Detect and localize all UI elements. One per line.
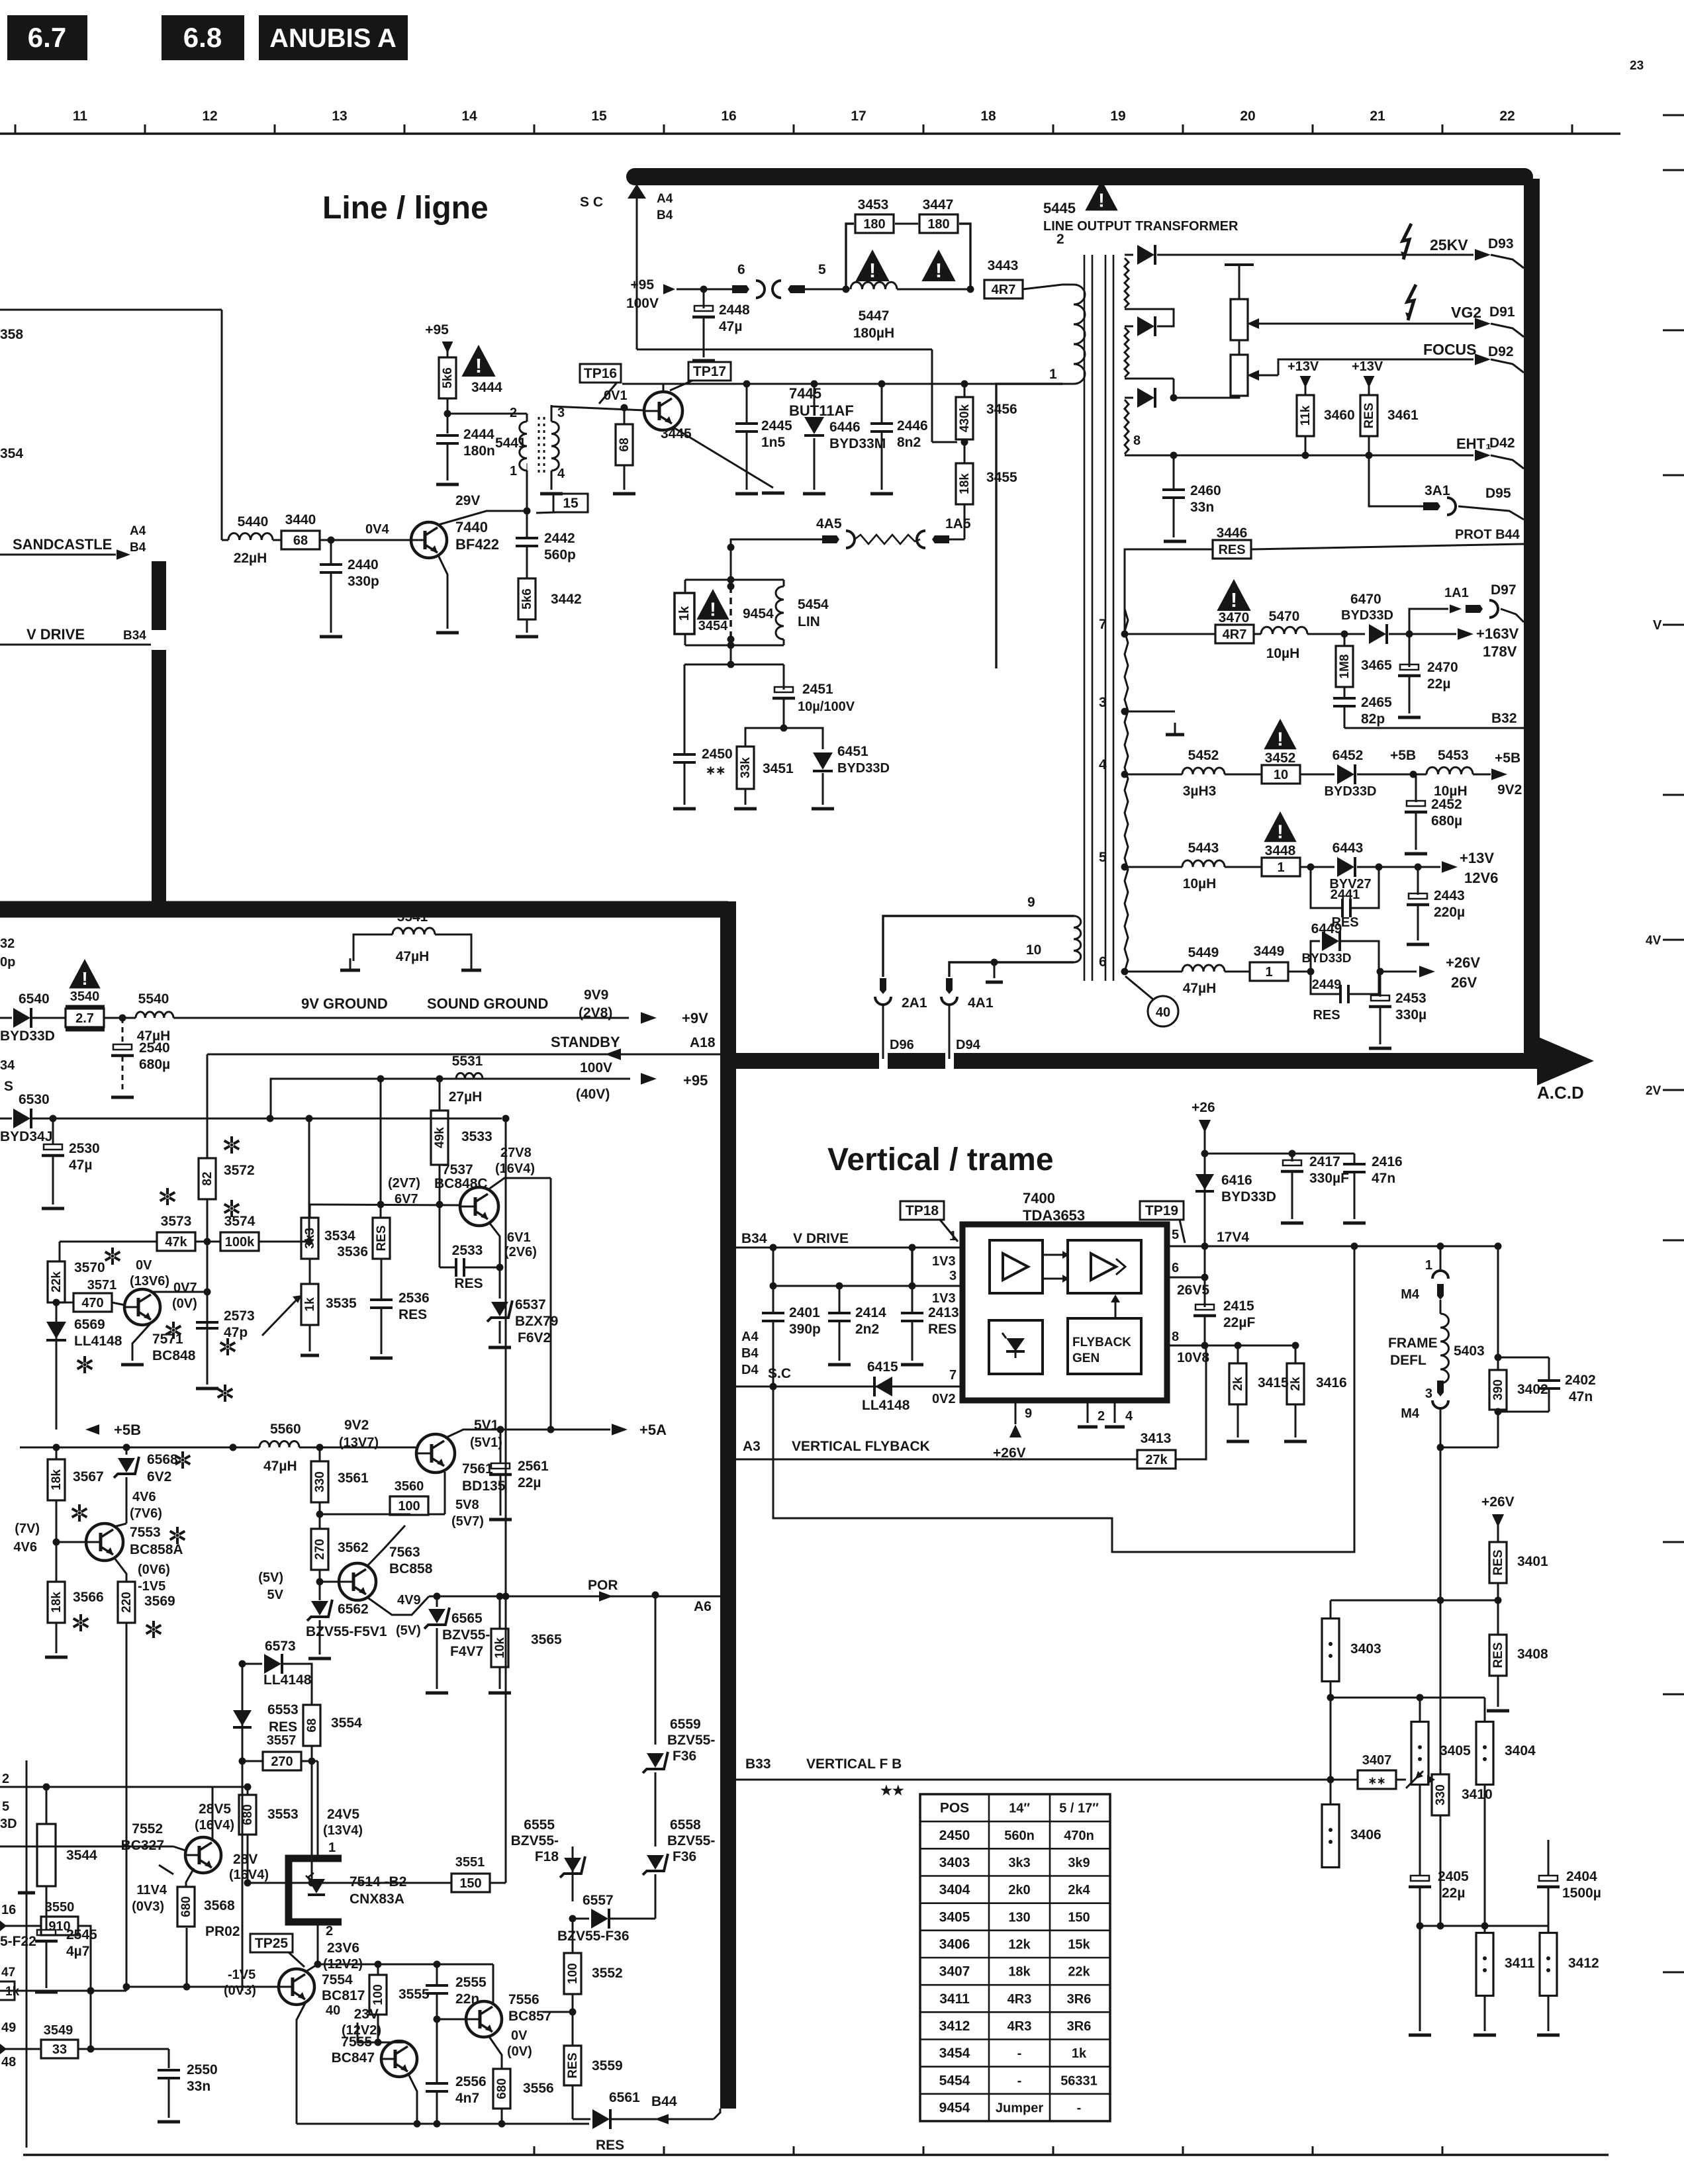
node 6530 row x758 bbox=[502, 1115, 510, 1122]
svg-text:1A5: 1A5 bbox=[945, 516, 971, 531]
svg-text:10µH: 10µH bbox=[1183, 876, 1217, 891]
svg-text:470: 470 bbox=[81, 1296, 103, 1310]
wire V DRIVE bbox=[736, 1231, 962, 1251]
node 15 flag bbox=[524, 494, 588, 515]
node divider bbox=[961, 439, 968, 464]
svg-text:5440: 5440 bbox=[238, 514, 269, 529]
diode 6416 BYD33D bbox=[1195, 1173, 1276, 1205]
ic flyback gen box bbox=[1068, 1318, 1141, 1374]
svg-text:M4: M4 bbox=[1401, 1406, 1420, 1421]
resistor 3451 33k bbox=[734, 747, 794, 809]
node 24V5 bbox=[323, 1807, 363, 1855]
svg-text:14″: 14″ bbox=[1009, 1801, 1030, 1816]
svg-text:D92: D92 bbox=[1488, 344, 1514, 359]
svg-text:3534: 3534 bbox=[324, 1228, 355, 1244]
inductor 5454 LIN bbox=[776, 580, 829, 645]
svg-text:(13V7): (13V7) bbox=[339, 1435, 379, 1450]
svg-text:BC858A: BC858A bbox=[130, 1542, 183, 1557]
connector 2A1 bbox=[875, 978, 927, 1059]
resistor 3566 18k bbox=[45, 1542, 104, 1657]
svg-text:4A1: 4A1 bbox=[968, 995, 994, 1011]
node 6573 bbox=[239, 1661, 246, 1668]
svg-text:GEN: GEN bbox=[1072, 1351, 1099, 1365]
wire row 2418 bbox=[1331, 1600, 1498, 1602]
resistor 3444 5k6 bbox=[439, 357, 502, 414]
svg-text:1V3: 1V3 bbox=[932, 1254, 956, 1269]
svg-text:D91: D91 bbox=[1489, 304, 1515, 320]
svg-text:!: ! bbox=[1277, 729, 1284, 750]
svg-text:1: 1 bbox=[1265, 965, 1272, 979]
svg-text:B4: B4 bbox=[657, 208, 673, 222]
svg-text:TDA3653: TDA3653 bbox=[1023, 1207, 1085, 1224]
svg-text:3404: 3404 bbox=[939, 1882, 970, 1897]
supply +26V lower bbox=[1481, 1494, 1515, 1542]
net 5V 5V bbox=[258, 1570, 283, 1602]
capacitor 2530 47u bbox=[42, 1118, 100, 1208]
svg-text:2556: 2556 bbox=[455, 2074, 487, 2089]
net 9V9 +9V bbox=[579, 987, 708, 1026]
svg-text:6452: 6452 bbox=[1333, 748, 1364, 763]
svg-text:7561: 7561 bbox=[462, 1461, 493, 1477]
wire 3410 gnd bbox=[1419, 1926, 1421, 2031]
emitter 7555 bbox=[408, 2074, 417, 2124]
wire 6558 down bbox=[655, 1874, 657, 1919]
svg-text:68: 68 bbox=[305, 1718, 319, 1732]
pin7 labels bbox=[932, 1368, 957, 1406]
wire defl right branch bbox=[1495, 1243, 1502, 1361]
resistor 3405 bbox=[1411, 1698, 1471, 1876]
svg-text:D4: D4 bbox=[741, 1363, 759, 1377]
wire 3447 branch down bbox=[959, 224, 970, 289]
diode 6569 LL4148 bbox=[46, 1317, 122, 1430]
partial 49 bbox=[1, 2021, 16, 2035]
inductor 5470 10uH bbox=[1254, 609, 1344, 661]
net 0V6 -1V5 bbox=[138, 1563, 170, 1594]
capacitor 2533 RES bbox=[440, 1243, 500, 1291]
wire defl top bbox=[1440, 1246, 1442, 1271]
svg-text:8: 8 bbox=[1172, 1330, 1179, 1344]
ic internal wires bbox=[1015, 1358, 1072, 1363]
wire sc to divider bbox=[932, 441, 957, 443]
wire 7555 base bbox=[318, 2058, 381, 2060]
svg-text:POS: POS bbox=[940, 1801, 969, 1816]
svg-text:4A5: 4A5 bbox=[816, 516, 842, 531]
svg-text:47n: 47n bbox=[1372, 1171, 1395, 1186]
svg-text:56331: 56331 bbox=[1060, 2073, 1098, 2088]
svg-text:0V2: 0V2 bbox=[932, 1392, 956, 1406]
node S.C entry arrow bbox=[580, 184, 646, 349]
svg-text:2416: 2416 bbox=[1372, 1154, 1403, 1169]
svg-text:3412: 3412 bbox=[1568, 1956, 1599, 1971]
wire 3551 col bbox=[311, 1761, 313, 1883]
svg-text:1k: 1k bbox=[1072, 2046, 1087, 2061]
svg-text:LINE OUTPUT TRANSFORMER: LINE OUTPUT TRANSFORMER bbox=[1043, 219, 1239, 234]
svg-text:0V: 0V bbox=[511, 2028, 528, 2043]
node 2470 bbox=[1389, 631, 1456, 638]
svg-text:3461: 3461 bbox=[1387, 408, 1419, 423]
svg-text:180n: 180n bbox=[463, 443, 495, 459]
svg-text:(0V): (0V) bbox=[507, 2044, 532, 2059]
pin label 5 bbox=[1099, 850, 1129, 871]
svg-text:+13V: +13V bbox=[1287, 359, 1319, 374]
resistor 3448 1 bbox=[1225, 843, 1300, 876]
svg-text:(0V3): (0V3) bbox=[132, 1899, 164, 1914]
svg-text:-: - bbox=[1017, 2046, 1022, 2061]
diode 6530 BYD34J bbox=[0, 1092, 502, 1144]
wire row 2700 bbox=[0, 1784, 252, 1791]
svg-text:16: 16 bbox=[721, 109, 736, 124]
svg-text:6: 6 bbox=[737, 262, 745, 277]
node x191 row bbox=[123, 1983, 130, 1991]
svg-text:6562: 6562 bbox=[338, 1602, 369, 1617]
svg-text:3451: 3451 bbox=[763, 761, 794, 776]
svg-text:VG2: VG2 bbox=[1451, 304, 1481, 321]
resistor 3447 180 bbox=[919, 197, 958, 233]
svg-text:1: 1 bbox=[328, 1841, 336, 1855]
resistor 3453 180 bbox=[855, 197, 894, 233]
resistor 3534 3k3 bbox=[301, 1205, 355, 1259]
resistor 3555 100 bbox=[369, 1964, 430, 2042]
inductor 5452 bbox=[1125, 748, 1225, 799]
resistor 3445 68 bbox=[613, 408, 692, 494]
capacitor 2453 330u bbox=[1369, 972, 1427, 1048]
resistor 3574 100k bbox=[195, 1214, 313, 1251]
inductor 5540 47uH bbox=[136, 991, 629, 1044]
capacitor 2460 33n bbox=[1162, 455, 1221, 537]
svg-text:2: 2 bbox=[1098, 1409, 1105, 1424]
resistor 3556 680 bbox=[493, 2069, 554, 2124]
diode 6561 RES bbox=[573, 2090, 714, 2153]
connector 6 bbox=[732, 262, 765, 298]
flag TP25 bbox=[250, 1934, 304, 1967]
wire standby drop bbox=[207, 1054, 209, 1158]
wire 3533 row bbox=[310, 1075, 461, 1218]
partial label 358 bbox=[0, 327, 23, 1073]
transformer 5445 primary winding 2-1 bbox=[1062, 285, 1085, 384]
svg-text:6: 6 bbox=[1172, 1261, 1179, 1275]
svg-text:6415: 6415 bbox=[867, 1359, 898, 1375]
resistor 3540 2.7 bbox=[66, 989, 105, 1030]
svg-text:2536: 2536 bbox=[398, 1291, 430, 1306]
svg-text:18k: 18k bbox=[50, 1592, 64, 1613]
svg-text:(7V): (7V) bbox=[15, 1522, 40, 1536]
svg-text:28V: 28V bbox=[233, 1852, 257, 1867]
transistor 7571 BC848 bbox=[124, 1289, 160, 1325]
svg-text:BC857: BC857 bbox=[508, 2009, 551, 2024]
arrow +13V out bbox=[1418, 850, 1498, 886]
svg-text:47µH: 47µH bbox=[1183, 981, 1217, 996]
svg-text:7445: 7445 bbox=[789, 385, 821, 402]
svg-text:180µH: 180µH bbox=[853, 326, 894, 341]
label 7555 bbox=[332, 2034, 375, 2066]
label 7445 bbox=[789, 385, 854, 419]
pin label 7 bbox=[1099, 617, 1129, 638]
capacitor 2449 bridge bbox=[1311, 972, 1379, 1023]
net 28V 16V4 bbox=[229, 1852, 269, 1882]
svg-text:2401: 2401 bbox=[789, 1305, 820, 1320]
resistor 3571 470 bbox=[53, 1278, 126, 1312]
wire vg2 row bbox=[1271, 323, 1473, 325]
svg-text:S: S bbox=[4, 1079, 13, 1094]
net 23V 12V2 bbox=[342, 2007, 381, 2038]
svg-text:2414: 2414 bbox=[855, 1305, 886, 1320]
asterisk a13 bbox=[146, 1621, 162, 1638]
emitter 7563 bbox=[367, 1593, 429, 1638]
node 5560 bbox=[230, 1444, 237, 1451]
svg-text:BZV55-: BZV55- bbox=[667, 1833, 715, 1848]
svg-text:3R6: 3R6 bbox=[1067, 1992, 1092, 2007]
svg-text:19: 19 bbox=[1110, 109, 1125, 124]
collector 7553 bbox=[114, 1524, 126, 1527]
pot vg2 wiper bbox=[1247, 318, 1271, 329]
svg-text:A4: A4 bbox=[741, 1330, 759, 1344]
svg-text:(7V6): (7V6) bbox=[130, 1506, 162, 1521]
svg-text:TP17: TP17 bbox=[693, 364, 726, 379]
svg-text:B4: B4 bbox=[130, 541, 146, 555]
svg-text:49k: 49k bbox=[433, 1127, 447, 1148]
svg-text:10µ/100V: 10µ/100V bbox=[798, 700, 855, 714]
svg-text:28V5: 28V5 bbox=[199, 1801, 231, 1817]
svg-text:BC817: BC817 bbox=[322, 1988, 365, 2003]
diode 6446 BYD33M bbox=[803, 381, 886, 494]
capacitor 2416 47n bbox=[1343, 1154, 1403, 1223]
asterisk a7 bbox=[220, 1338, 236, 1355]
node eht 2460 bbox=[1170, 452, 1178, 459]
svg-text:D95: D95 bbox=[1485, 486, 1511, 501]
svg-text:6553: 6553 bbox=[267, 1702, 299, 1717]
partial 16 bbox=[1, 1903, 16, 1917]
svg-text:6V7: 6V7 bbox=[395, 1192, 418, 1206]
svg-text:18k: 18k bbox=[50, 1469, 64, 1490]
zener 6568 6V2 bbox=[114, 1447, 178, 1524]
svg-text:BZV55-: BZV55- bbox=[667, 1733, 715, 1748]
wire 2404 top bbox=[1548, 1840, 1550, 1876]
svg-text:5540: 5540 bbox=[138, 991, 169, 1007]
svg-text:2443: 2443 bbox=[1434, 888, 1465, 903]
svg-text:23V6: 23V6 bbox=[327, 1940, 359, 1956]
node 18k top bbox=[56, 1447, 57, 1448]
wire 2442 to xfmr bbox=[526, 471, 528, 511]
svg-text:-1V5: -1V5 bbox=[228, 1968, 256, 1982]
net 0V1 bbox=[604, 388, 628, 403]
node 5540 bbox=[104, 1015, 136, 1022]
node junction 2448 bbox=[700, 286, 708, 293]
resistor 3550 910 bbox=[0, 1900, 78, 1935]
wire pin3 gnd bbox=[1125, 711, 1184, 735]
svg-text:(16V4): (16V4) bbox=[495, 1161, 535, 1176]
svg-text:23: 23 bbox=[1630, 59, 1644, 73]
asterisk a3 bbox=[160, 1188, 175, 1205]
svg-text:TP16: TP16 bbox=[584, 366, 617, 381]
asterisk a9 bbox=[72, 1504, 87, 1522]
svg-text:B44: B44 bbox=[651, 2094, 677, 2109]
wire x990 col bbox=[652, 1592, 659, 1745]
connector 5 bbox=[772, 262, 846, 298]
svg-text:7440: 7440 bbox=[455, 519, 488, 535]
svg-text:RES: RES bbox=[1218, 543, 1245, 557]
lightning 25KV bbox=[1401, 224, 1411, 259]
svg-text:FLYBACK: FLYBACK bbox=[1072, 1336, 1131, 1349]
svg-text:9: 9 bbox=[1027, 895, 1035, 910]
resistor 3460 11k bbox=[1287, 359, 1355, 459]
svg-text:2545: 2545 bbox=[66, 1927, 97, 1942]
svg-text:2450: 2450 bbox=[702, 747, 733, 762]
wire focus row bbox=[1278, 359, 1473, 375]
svg-text:RES: RES bbox=[454, 1276, 483, 1291]
svg-text:+5A: +5A bbox=[639, 1422, 667, 1438]
svg-text:33n: 33n bbox=[1190, 500, 1214, 515]
table note stars bbox=[880, 1784, 904, 1798]
label 7556 bbox=[508, 1992, 551, 2024]
svg-text:100: 100 bbox=[371, 1984, 385, 2005]
svg-text:(2V6): (2V6) bbox=[504, 1245, 537, 1259]
svg-text:9454: 9454 bbox=[939, 2100, 970, 2115]
wire vertical flyback bbox=[736, 1439, 1137, 1459]
svg-text:29V: 29V bbox=[455, 493, 480, 508]
svg-text:9V2: 9V2 bbox=[1497, 782, 1522, 797]
wire row 2910 bbox=[1417, 1923, 1549, 1930]
transistor 7554 BC817 bbox=[279, 1969, 314, 2005]
svg-text:RES: RES bbox=[1362, 402, 1376, 428]
svg-text:RES: RES bbox=[596, 2138, 624, 2153]
svg-text:1: 1 bbox=[1049, 367, 1057, 382]
label 7571 bbox=[152, 1332, 196, 1363]
svg-text:7400: 7400 bbox=[1023, 1190, 1055, 1206]
resistor 3410 330 bbox=[1432, 1774, 1493, 1926]
wire 3550 right bbox=[78, 1926, 91, 1991]
svg-text:!: ! bbox=[81, 968, 87, 989]
net PROT B44 bbox=[1455, 527, 1520, 542]
svg-text:5445: 5445 bbox=[1043, 200, 1076, 216]
svg-text:3552: 3552 bbox=[592, 1966, 623, 1981]
transformer 5445 core bbox=[1084, 255, 1113, 981]
wire pin6 out bbox=[1377, 968, 1417, 976]
wire standby bbox=[207, 1034, 720, 1060]
svg-text:6: 6 bbox=[1099, 954, 1107, 970]
node 6449 left bbox=[1288, 968, 1315, 976]
svg-text:9: 9 bbox=[1025, 1406, 1032, 1421]
svg-text:6530: 6530 bbox=[19, 1092, 50, 1107]
svg-text:100: 100 bbox=[566, 1963, 580, 1984]
svg-text:2540: 2540 bbox=[139, 1040, 170, 1056]
wire 3453-3447 bbox=[895, 223, 918, 225]
svg-text:3447: 3447 bbox=[923, 197, 954, 212]
svg-text:!: ! bbox=[1098, 190, 1105, 211]
svg-text:6558: 6558 bbox=[670, 1817, 701, 1833]
svg-text:3R6: 3R6 bbox=[1067, 2019, 1092, 2034]
svg-text:+26: +26 bbox=[1192, 1100, 1215, 1115]
svg-text:2V: 2V bbox=[1646, 1084, 1661, 1098]
svg-text:BC847: BC847 bbox=[332, 2050, 375, 2066]
svg-text:3442: 3442 bbox=[551, 592, 582, 607]
svg-text:V: V bbox=[1653, 618, 1662, 633]
wire 22k top bbox=[59, 1242, 61, 1261]
svg-text:7552: 7552 bbox=[132, 1821, 163, 1837]
label 7552 bbox=[121, 1821, 164, 1853]
wire fb loop bbox=[773, 1246, 1354, 1552]
svg-text:3401: 3401 bbox=[1517, 1554, 1548, 1569]
diode 6449 BYD33D bridge bbox=[1302, 921, 1379, 972]
svg-text:3470: 3470 bbox=[1219, 610, 1250, 625]
resistor 3416 2k bbox=[1284, 1342, 1347, 1442]
component value table bbox=[920, 1794, 1110, 2121]
svg-text:47: 47 bbox=[1, 1966, 15, 1979]
transistor 7440 BF422 bbox=[411, 522, 447, 558]
svg-text:BZV55-F5V1: BZV55-F5V1 bbox=[306, 1624, 387, 1639]
label 7553 bbox=[130, 1525, 183, 1557]
warning triangle 3452 bbox=[1264, 719, 1296, 750]
warning triangle 3470 bbox=[1217, 579, 1250, 612]
resistor 3573 47k bbox=[157, 1214, 195, 1251]
node split 3453 bbox=[843, 286, 850, 293]
svg-text:330p: 330p bbox=[348, 574, 379, 589]
svg-text:0V1: 0V1 bbox=[604, 388, 628, 403]
wire pin5 17V4 bbox=[1167, 1228, 1498, 1250]
capacitor 2556 4n7 bbox=[437, 2019, 487, 2106]
wire 3552 left bbox=[543, 2011, 573, 2013]
wire x191-x282 row bbox=[126, 1986, 187, 1987]
svg-text:11k: 11k bbox=[1299, 405, 1313, 426]
transformer 5445 secondary lower winding bbox=[1125, 609, 1128, 972]
wire row 2565 bbox=[1331, 1694, 1485, 1702]
label 7554 bbox=[322, 1972, 365, 2018]
svg-text:CNX83A: CNX83A bbox=[350, 1891, 404, 1907]
net label D96 bbox=[890, 1038, 914, 1052]
svg-text:9V2: 9V2 bbox=[344, 1418, 369, 1433]
net 0V7 bbox=[172, 1281, 197, 1311]
wire x865 col bbox=[572, 1846, 574, 1901]
capacitor 2415 22uF bbox=[1193, 1298, 1255, 1345]
capacitor 2441 bridge bbox=[1311, 864, 1383, 918]
net S entry bbox=[0, 1079, 13, 1118]
svg-text:5454: 5454 bbox=[939, 2073, 970, 2088]
svg-text:5403: 5403 bbox=[1454, 1343, 1485, 1359]
svg-text:0p: 0p bbox=[0, 955, 15, 970]
wire 7571 collector bbox=[152, 1289, 211, 1296]
left section top border bar bbox=[0, 901, 728, 918]
capacitor 2561 22u bbox=[489, 1426, 549, 1520]
svg-text:!: ! bbox=[1231, 588, 1237, 612]
emitter 7556 col bbox=[489, 2036, 502, 2068]
svg-text:20: 20 bbox=[1240, 109, 1255, 124]
svg-text:A18: A18 bbox=[690, 1035, 716, 1050]
svg-text:(5V7): (5V7) bbox=[451, 1514, 484, 1529]
wire prot bbox=[1125, 549, 1213, 634]
capacitor 2450 bbox=[673, 747, 733, 809]
diode 6553 RES bbox=[233, 1702, 299, 1735]
svg-text:F18: F18 bbox=[535, 1849, 559, 1864]
node tp25 bbox=[314, 1961, 322, 1968]
ic amp arrows bbox=[1043, 1251, 1069, 1283]
svg-text:34: 34 bbox=[0, 1058, 15, 1073]
connector 4A5 bbox=[816, 516, 855, 548]
svg-text:(2V7): (2V7) bbox=[388, 1176, 420, 1191]
wire POR bbox=[429, 1578, 720, 1614]
svg-text:3406: 3406 bbox=[939, 1936, 970, 1952]
resistor 3454 1k bbox=[675, 580, 694, 645]
svg-text:3407: 3407 bbox=[1362, 1753, 1392, 1768]
svg-text:3: 3 bbox=[1425, 1387, 1432, 1401]
node 3403 bottom bbox=[1327, 1694, 1334, 1702]
svg-text:3544: 3544 bbox=[66, 1848, 97, 1863]
svg-text:PR02: PR02 bbox=[205, 1924, 240, 1939]
capacitor 2404 1500u bbox=[1537, 1600, 1601, 1926]
connector defl 1 M4 bbox=[1401, 1258, 1448, 1302]
rectifier diode top bbox=[1125, 245, 1473, 265]
capacitor 2417 330uF bbox=[1281, 1154, 1349, 1223]
svg-text:STANDBY: STANDBY bbox=[551, 1034, 620, 1050]
label 6470 BYD33D bbox=[1341, 592, 1393, 623]
